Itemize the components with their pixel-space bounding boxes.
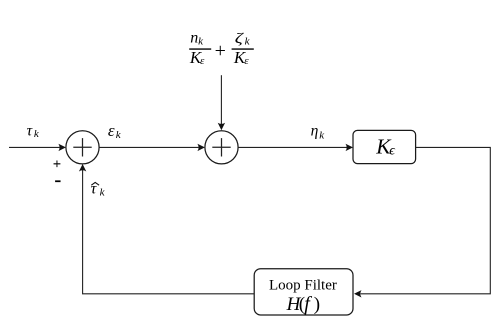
svg-text:η: η [311,123,319,140]
block label H(f) [286,293,321,315]
node label tau_k [27,123,40,141]
node label eta_k [311,123,326,142]
block Loop Filter H(f) [254,269,353,315]
plus sign inside S2 [212,138,230,156]
svg-text:n: n [190,30,198,47]
wire K_e output right then down then left into Loop Filter [361,147,491,293]
noise input label n_k/K_e + zeta_k/K_e [189,29,254,67]
feedback wire Loop Filter to S1 [83,170,255,294]
svg-text:+: + [215,40,226,62]
node label tau-hat_k [91,180,106,198]
block K_e (gain) [353,130,416,163]
arrowhead into Loop Filter right side [354,290,362,297]
arrowhead into K_e block [346,144,354,151]
svg-text:ε: ε [108,121,115,140]
wire input tau_k [9,146,60,148]
summer S2 (adder circle) [205,131,238,164]
wire S2 to K_e block [238,146,347,148]
wire noise input down to S2 [220,75,222,124]
svg-text:Loop Filter: Loop Filter [269,278,337,294]
svg-text:ε: ε [244,55,249,67]
arrowhead into S2 top [218,123,225,131]
block K_e value label [375,135,396,159]
arrowhead into S1 bottom [79,164,86,172]
svg-text:-: - [54,169,61,191]
arrowhead into summer S1 [58,144,66,151]
wire S1 to S2 [99,146,198,148]
arrowhead into summer S2 [197,144,205,151]
node label epsilon_k [108,121,122,141]
summer S1 (adder circle) [66,131,99,164]
plus sign inside S1 [73,138,91,156]
svg-text:ε: ε [200,55,205,67]
svg-text:): ) [314,294,320,315]
